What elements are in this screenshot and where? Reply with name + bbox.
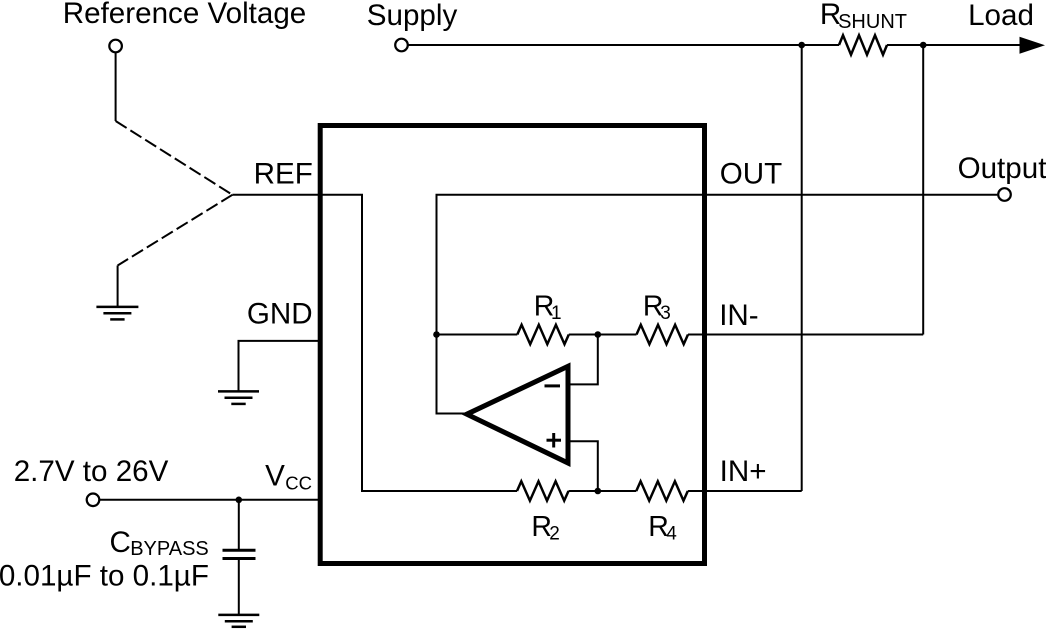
svg-text:IN+: IN+ (720, 455, 767, 488)
svg-text:GND: GND (247, 297, 313, 330)
ground (bypass cap) (218, 615, 259, 627)
resistor R3 (637, 325, 689, 344)
resistor R1 (517, 325, 569, 344)
terminal Supply (395, 39, 408, 52)
svg-text:Supply: Supply (367, 0, 458, 32)
wire IN- pin (688, 334, 923, 336)
op-amp minus sign (545, 384, 561, 387)
capacitor CBYPASS (223, 550, 256, 558)
wire non-inverting input (568, 441, 598, 491)
svg-text:Load: Load (968, 0, 1034, 32)
label Vcc (265, 460, 312, 494)
node R1 left junction (433, 331, 440, 338)
resistor R4 (636, 481, 688, 500)
wire IN+ pin (688, 490, 802, 492)
ground (reference) (96, 307, 138, 320)
label R4 (648, 511, 677, 545)
wire cap bottom lead (238, 560, 240, 615)
terminal Vcc supply (87, 494, 100, 507)
ground (GND pin) (218, 391, 259, 404)
wire inverting input (568, 335, 598, 385)
svg-text:V: V (265, 460, 285, 493)
svg-text:Reference Voltage: Reference Voltage (63, 0, 307, 30)
svg-text:0.01µF to 0.1µF: 0.01µF to 0.1µF (0, 559, 209, 592)
wire R1 lead (437, 334, 518, 336)
wire dashed ref-to-REF (116, 121, 233, 195)
svg-text:1: 1 (551, 303, 562, 324)
terminal Reference Voltage (109, 40, 122, 53)
label RSHUNT (820, 0, 907, 33)
wire shunt-right to IN- (922, 45, 924, 335)
svg-text:C: C (110, 526, 131, 559)
wire shunt-left to IN+ (801, 45, 803, 491)
node R1-R3 junction (595, 331, 602, 338)
wire shunt to load (887, 44, 1021, 46)
node shunt right junction (920, 42, 927, 49)
svg-text:2.7V to 26V: 2.7V to 26V (14, 455, 169, 488)
svg-text:CC: CC (285, 472, 312, 493)
svg-text:BYPASS: BYPASS (130, 538, 209, 560)
svg-text:REF: REF (254, 157, 313, 190)
svg-text:4: 4 (666, 524, 677, 545)
wire ref ground stem (117, 266, 119, 307)
wire R1 to R3 (569, 334, 637, 336)
label R1 (534, 290, 562, 324)
wire supply rail (408, 44, 839, 46)
wire R2 to R4 (569, 490, 637, 492)
wire REF net (232, 195, 517, 491)
node shunt left junction (798, 42, 805, 49)
resistor RSHUNT (839, 35, 887, 54)
amplifier box U1 (320, 126, 704, 564)
svg-text:3: 3 (660, 303, 671, 324)
wire ref terminal stem (115, 53, 117, 122)
wire cap top lead (238, 500, 240, 549)
label R2 (531, 511, 559, 545)
svg-text:Output: Output (958, 152, 1046, 185)
wire dashed REF-to-ground (118, 195, 233, 266)
svg-text:2: 2 (549, 524, 560, 545)
wire Vcc (100, 499, 320, 501)
label R3 (643, 290, 671, 324)
svg-text:IN-: IN- (719, 299, 758, 332)
op-amp plus sign (547, 433, 562, 448)
wire opamp output net to OUT (437, 195, 998, 414)
label CBYPASS (110, 526, 209, 560)
node Vcc-cap junction (236, 497, 243, 504)
wire GND pin (239, 341, 320, 391)
op-amp U1 (467, 366, 568, 463)
resistor R2 (517, 481, 569, 500)
svg-text:SHUNT: SHUNT (838, 11, 907, 33)
svg-text:OUT: OUT (720, 158, 782, 191)
node R2-R4 junction (595, 488, 602, 495)
arrow to Load (1020, 37, 1046, 54)
terminal Output (998, 188, 1011, 201)
